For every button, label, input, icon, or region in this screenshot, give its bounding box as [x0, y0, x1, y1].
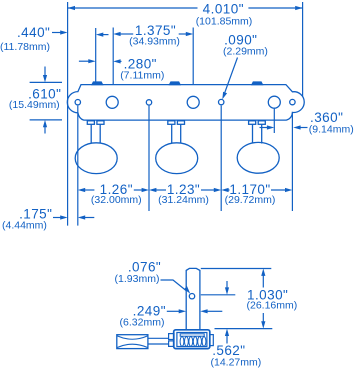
extension line large hole 1: [112, 28, 114, 85]
dimension .440 arrow: [52, 32, 62, 34]
large hole 3: [268, 96, 280, 108]
dimension .562 arrows: [226, 281, 228, 289]
svg-text:(34.93mm): (34.93mm): [129, 36, 180, 48]
tab 2: [170, 82, 180, 85]
button side view: [117, 335, 148, 349]
svg-text:(101.85mm): (101.85mm): [196, 16, 253, 28]
svg-text:(6.32mm): (6.32mm): [120, 316, 165, 328]
string post: [186, 268, 200, 329]
dimension .562 extension line: [201, 294, 236, 296]
extension line plate right end: [302, 2, 304, 97]
button 3: [237, 142, 279, 173]
large hole 1: [106, 96, 118, 108]
housing right tab: [210, 335, 214, 346]
dimension .249 arrows: [167, 310, 180, 312]
svg-text:(32.00mm): (32.00mm): [91, 194, 142, 206]
button 2: [156, 143, 198, 174]
leader .090: [225, 58, 238, 93]
tab 1: [92, 82, 102, 85]
screw hole right: [290, 99, 295, 104]
leader .076: [161, 280, 187, 291]
large hole 2: [187, 96, 199, 108]
svg-text:(7.11mm): (7.11mm): [120, 69, 164, 81]
extension line post hole 1: [148, 106, 150, 211]
svg-text:(4.44mm): (4.44mm): [2, 220, 47, 232]
extension line post hole 2: [220, 106, 222, 211]
dimension 1.170: [221, 188, 228, 192]
dimension .610 extension lines: [30, 81, 62, 83]
svg-text:(11.78mm): (11.78mm): [0, 41, 50, 53]
svg-text:(1.93mm): (1.93mm): [115, 273, 160, 285]
svg-text:(26.16mm): (26.16mm): [247, 299, 298, 311]
svg-text:.440": .440": [17, 25, 50, 40]
svg-text:(9.14mm): (9.14mm): [309, 124, 354, 136]
button 1: [75, 143, 117, 174]
button 3 cap: [249, 121, 266, 144]
svg-text:(31.24mm): (31.24mm): [158, 194, 209, 206]
worm coil: [180, 337, 206, 347]
dimension 4.010 line: [68, 7, 198, 9]
button 2 cap: [168, 121, 185, 144]
extension line screw hole left: [77, 106, 79, 226]
extension line large hole 2: [192, 28, 194, 85]
extension line large hole 3: [273, 109, 275, 133]
gear housing: [174, 330, 210, 349]
screw hole left: [75, 100, 80, 105]
plate outline: [67, 85, 304, 121]
string hole: [189, 294, 194, 299]
dimension 1.030: [262, 274, 264, 288]
dimension 1.030 extension lines: [201, 268, 271, 270]
dimension 1.26: [78, 188, 85, 192]
button 1 cap: [87, 121, 104, 144]
extension line plate left end: [67, 2, 69, 226]
extension line worm shaft 1: [95, 28, 97, 82]
dimension 1.375: [113, 32, 120, 36]
post hole 1: [146, 100, 151, 105]
dimension .280 arrow: [113, 59, 120, 63]
tab 3: [252, 82, 262, 85]
svg-text:(14.27mm): (14.27mm): [211, 356, 262, 368]
dimension .360 arrows: [260, 127, 269, 129]
svg-text:(29.72mm): (29.72mm): [225, 194, 276, 206]
dimension 1.23: [149, 188, 156, 192]
svg-text:4.010": 4.010": [203, 1, 244, 16]
dimension .175 arrows: [53, 217, 62, 219]
post hole 2: [219, 99, 224, 104]
housing left cap: [169, 334, 174, 340]
svg-text:(15.49mm): (15.49mm): [9, 99, 60, 111]
svg-text:(2.29mm): (2.29mm): [223, 45, 268, 57]
button shaft: [148, 337, 169, 339]
extension line screw hole right: [291, 113, 293, 211]
dimension .610 arrows: [44, 67, 46, 77]
